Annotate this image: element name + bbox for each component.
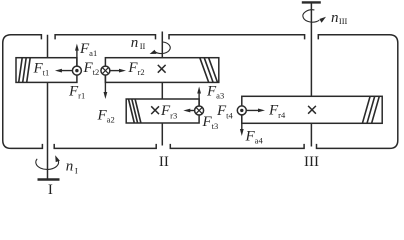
mesh symbol circle-dot 1 (force out of page) — [72, 66, 81, 75]
gear 4 hatching — [362, 96, 379, 123]
shaft III line — [310, 2, 312, 146]
shaft I line — [47, 35, 49, 180]
arrowhead Fa4 — [240, 129, 244, 136]
svg-text:III: III — [304, 154, 319, 170]
arrowhead Fr1 — [55, 69, 62, 73]
force arrow Fr2 (right arrow from circle-cross 2) — [105, 70, 121, 72]
rotation loop n_III around shaft III — [303, 10, 326, 23]
housing frame top-left segment with corner — [3, 35, 43, 149]
svg-text:Ft3: Ft3 — [202, 114, 219, 131]
svg-text:Fa4: Fa4 — [245, 128, 264, 145]
force arrow Fr3 (left arrow from circle-cross 3) — [188, 110, 199, 112]
svg-text:Ft4: Ft4 — [216, 103, 234, 120]
svg-text:nII: nII — [131, 35, 146, 51]
svg-text:Fa3: Fa3 — [206, 84, 224, 101]
gear 2 hatching — [200, 58, 218, 83]
svg-text:nIII: nIII — [331, 10, 348, 26]
rotation loop n_I around shaft I — [36, 155, 60, 169]
shaft cross mark in gear 4 — [308, 106, 316, 114]
force arrow Fr1 (left arrow at mesh 1-2) — [60, 70, 77, 72]
mesh symbol circle-cross 3 (force into page) — [195, 106, 204, 115]
housing frame right segment with corners — [317, 35, 398, 149]
shaft cross mark in gear 3 — [151, 106, 159, 114]
gear 3 rectangle — [126, 99, 199, 123]
gear 3 hatching — [129, 99, 141, 123]
mesh symbol circle-dot 4 (force out of page) — [237, 106, 246, 115]
shaft I end bar — [38, 178, 60, 180]
gear 4 rectangle — [242, 96, 382, 123]
force arrow Fa1 (up arrow at mesh 1-2) — [76, 49, 78, 71]
svg-text:I: I — [48, 182, 53, 196]
force arrow Fa3 (up arrow at mesh 3-4) — [198, 92, 200, 111]
arrowhead Fr4 — [258, 109, 265, 113]
arrowhead Fa2 — [104, 92, 108, 99]
force arrow Fa2 (down arrow below circle-cross 2) — [104, 71, 106, 94]
arrowhead Fa3 — [197, 87, 201, 94]
svg-text:nI: nI — [66, 159, 78, 176]
housing frame top segment between shaft I and shaft II — [55, 35, 155, 40]
shaft III end bar — [302, 1, 321, 3]
housing frame bottom segment between shaft II and shaft III — [170, 144, 304, 149]
arrowhead Fr3 — [183, 109, 190, 113]
force arrow Fa4 (down arrow below circle-dot 4) — [241, 110, 243, 131]
housing frame top segment between shaft II and shaft III — [169, 35, 305, 40]
rotation loop n_II around shaft II — [150, 42, 171, 54]
svg-text:Fr1: Fr1 — [68, 83, 85, 100]
gear 2 rectangle — [105, 58, 218, 83]
gear 1 hatching — [19, 58, 31, 83]
svg-text:Fa2: Fa2 — [97, 108, 115, 125]
arrowhead Fr2 — [119, 69, 126, 73]
mesh symbol circle-cross 2 (force into page) — [101, 66, 110, 75]
svg-text:Ft2: Ft2 — [83, 60, 100, 77]
svg-text:II: II — [159, 154, 169, 170]
shaft cross mark in gear 2 — [158, 65, 166, 73]
gear 1 rectangle — [16, 58, 77, 83]
shaft II line — [161, 32, 163, 146]
svg-text:Fa1: Fa1 — [79, 41, 97, 58]
arrowhead Fa1 — [75, 44, 79, 51]
force arrow Fr4 (right arrow from circle-dot 4) — [242, 109, 260, 111]
housing frame bottom segment between shaft I and shaft II — [54, 144, 156, 149]
